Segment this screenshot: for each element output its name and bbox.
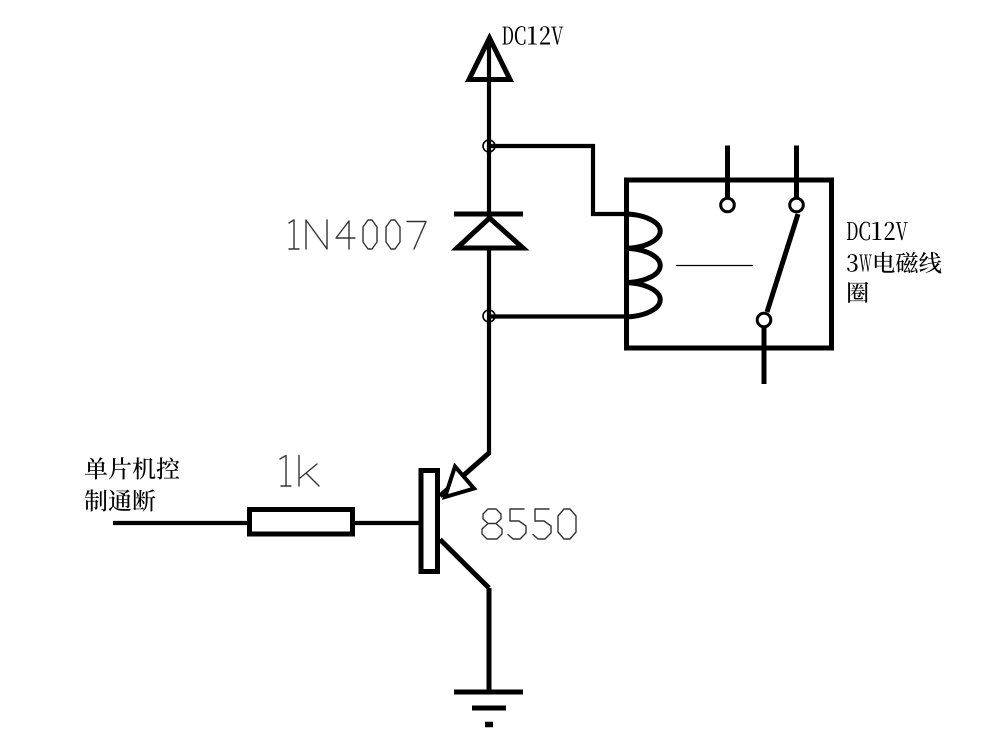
- resistor R1 1k body: [250, 510, 353, 535]
- relay K1 box: [627, 180, 832, 348]
- relay common wire down: [762, 327, 767, 385]
- ground symbol: [454, 692, 523, 725]
- wire resistor to transistor base: [352, 521, 419, 525]
- wire node B to relay coil bottom: [489, 314, 628, 318]
- transistor Q1 collector diagonal: [440, 540, 489, 589]
- diode D1 cathode bar: [454, 212, 523, 217]
- transistor Q1 base bar: [421, 471, 438, 572]
- wire input to resistor: [113, 521, 250, 525]
- label DC12V 3W coil (right): [847, 222, 942, 303]
- node A (junction circle): [483, 140, 495, 152]
- wire collector down to ground: [487, 588, 492, 691]
- label microcontroller control text: [85, 457, 180, 511]
- relay common terminal circle: [757, 313, 771, 327]
- diode D1 triangle (anode): [457, 218, 523, 248]
- relay coil (3 arcs): [627, 214, 661, 317]
- wire diode to node B: [487, 214, 491, 316]
- label 1N4007: [289, 220, 426, 249]
- transistor Q1 emitter diagonal: [440, 453, 489, 496]
- wire from node A to relay coil top: [489, 146, 628, 214]
- power symbol DC12V arrow: [469, 38, 510, 80]
- relay contact terminal circle right: [790, 198, 804, 212]
- relay switch blade: [767, 214, 798, 312]
- wire vertical from DC12V arrow down to diode cathode: [487, 40, 491, 214]
- label 1k: [280, 456, 319, 487]
- wire node B down to transistor emitter: [487, 316, 491, 455]
- relay contact terminal circle left: [721, 198, 735, 212]
- label 8550: [482, 509, 576, 539]
- relay contact stub right: [794, 146, 799, 199]
- label DC12V (top): [502, 26, 563, 45]
- transistor Q1 emitter arrow head: [445, 467, 474, 498]
- coil dash line: [676, 265, 753, 267]
- node B (junction circle): [483, 310, 495, 322]
- relay contact stub left: [725, 146, 730, 199]
